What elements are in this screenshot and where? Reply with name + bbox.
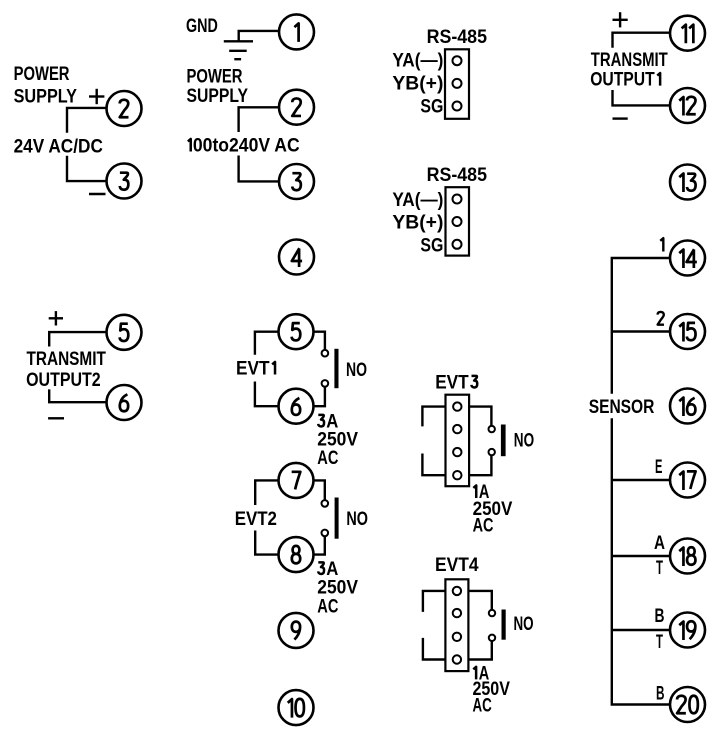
wire terminal5-left to transmit output2 [49,332,106,346]
terminal 6 [279,389,314,424]
ground symbol [224,40,253,42]
wire EVT2 contact to terminal8 [314,536,325,554]
terminal 11 [670,16,705,51]
contact point EVT3 lower [489,449,495,455]
svg-text:T: T [656,631,663,653]
wire sensor bus lower [612,418,670,704]
terminal 2 (24V supply) [107,91,142,126]
svg-text:POWER: POWER [187,65,243,87]
terminal 1 [279,14,314,49]
terminal 13 [670,165,705,200]
svg-text:SG: SG [420,235,443,257]
svg-text:POWER: POWER [14,63,70,85]
svg-text:00to240V AC: 00to240V AC [193,135,300,157]
svg-text:E: E [655,456,662,478]
wire terminal7 to EVT2 contact [314,480,325,500]
svg-text:SUPPLY: SUPPLY [187,85,249,107]
svg-text:OUTPUT2: OUTPUT2 [26,369,101,391]
svg-text:EVT: EVT [435,371,469,393]
contact blade EVT1 (NO) [334,349,338,388]
wire bus to terminal19 [612,629,670,631]
wire transmit output2 to terminal6-left [49,389,106,402]
minus sign (transmit output1) [613,117,628,119]
pin SG lower [453,240,462,249]
wire EVT2 left bracket lower [255,531,278,555]
terminal 12 [670,88,705,123]
terminal 9 [279,613,314,648]
pin 2 EVT3 [453,425,461,433]
wire EVT4 contact to pin4 [468,641,491,660]
terminal 2 [279,90,314,125]
rating 3A (EVT2) [318,562,324,574]
pin 3 EVT4 [453,633,461,641]
svg-text:T: T [656,557,663,579]
svg-text:AC: AC [473,694,492,716]
wire terminal11 to transmit output1 [613,33,670,48]
contact point EVT2 upper [322,500,329,507]
terminal 4 [279,240,314,275]
wire EVT1 left bracket lower [255,382,279,407]
connector EVT4 body [445,579,468,671]
wire bus to terminal18 [612,555,670,557]
terminal 14 [670,241,705,276]
wire sensor bus upper [612,258,670,394]
wire EVT4 left bracket upper [423,591,446,612]
svg-text:TRANSMIT: TRANSMIT [27,348,106,370]
svg-text:EVT4: EVT4 [435,554,479,576]
contact blade EVT3 (NO) [501,425,506,457]
pin YB lower [453,217,462,226]
contact point EVT4 lower [489,635,495,641]
terminal 18 [670,539,705,574]
connector RS-485 lower body [446,187,470,255]
rating 3A (EVT1) [318,415,324,427]
svg-text:NO: NO [514,430,534,452]
svg-text:SG: SG [420,96,443,118]
terminal 6 (transmit output2) [107,385,142,420]
wire EVT3 pin1 to contact [469,407,491,426]
wire EVT2 left bracket upper [255,480,278,505]
svg-text:NO: NO [346,359,367,381]
pin YA upper [453,56,462,65]
svg-text:AC: AC [317,595,338,617]
plus sign (transmit output2) [49,317,63,319]
pin YB upper [453,79,462,88]
terminal 5 [279,314,314,349]
wire EVT1 contact to terminal6 [313,387,325,407]
sensor lead label 2 [658,312,664,325]
pin SG upper [453,102,462,111]
wire EVT3 left bracket upper [422,407,445,427]
svg-text:OUTPUT: OUTPUT [590,69,655,91]
terminal 19 [670,613,705,648]
minus sign (24V supply) [89,193,106,195]
svg-text:SUPPLY: SUPPLY [14,86,77,108]
terminal 7 [279,463,314,498]
contact point EVT4 upper [489,610,495,616]
contact blade EVT4 (NO) [502,610,506,640]
wire bus to terminal15 [612,330,670,332]
contact blade EVT2 (NO) [335,498,339,539]
wire EVT3 left bracket lower [422,454,445,476]
terminal 3 [279,164,314,199]
wire EVT4 pin1 to contact [468,591,491,610]
plus sign (transmit output1) [613,19,628,21]
terminal 3 (24V supply) [107,164,142,199]
wire EVT1 left bracket upper [255,332,279,355]
terminal 20 [670,687,705,722]
svg-text:YB(+): YB(+) [392,72,443,94]
terminal 15 [670,314,705,349]
svg-text:A: A [654,532,665,554]
contact point EVT1 upper [322,350,329,357]
svg-text:YB(+): YB(+) [392,212,443,234]
connector EVT3 body [446,395,470,487]
wire terminal1 to ground [239,31,279,41]
contact point EVT3 upper [489,426,495,432]
wire 100-240V supply to terminal3 [239,156,280,182]
svg-text:24V AC/DC: 24V AC/DC [14,135,103,157]
pin YA lower [453,195,462,204]
connector RS-485 upper body [445,49,469,119]
minus sign (transmit output2) [48,417,64,419]
terminal 17 [670,463,705,498]
wire EVT3 contact to pin4 [469,455,491,475]
pin 1 EVT4 [453,587,461,595]
wire terminal2 to 100-240V supply [239,107,280,132]
pin 3 EVT3 [453,448,461,456]
svg-text:NO: NO [514,613,534,635]
svg-text:EVT2: EVT2 [235,508,277,530]
terminal 10 [279,690,314,725]
pin 4 EVT4 [453,655,461,663]
contact point EVT1 lower [322,380,329,387]
svg-text:GND: GND [186,15,218,37]
svg-text:NO: NO [346,508,368,530]
wire EVT4 left bracket lower [423,638,446,660]
svg-text:YA(—): YA(—) [392,50,443,72]
svg-text:SENSOR: SENSOR [589,396,655,418]
value label 100to240V AC [188,139,191,152]
terminal 16 [670,389,705,424]
svg-text:AC: AC [473,515,494,537]
rating 1A (EVT3) [473,485,476,498]
pin 1 EVT3 [453,402,461,410]
plus sign (24V supply) [89,95,104,97]
svg-text:YA(—): YA(—) [392,189,443,211]
svg-text:B: B [655,605,665,627]
pin 4 EVT3 [453,471,461,479]
sensor lead label 1 [660,238,663,251]
svg-text:AC: AC [317,447,338,469]
terminal 5 (transmit output2) [107,315,142,350]
svg-text:RS-485: RS-485 [427,164,487,186]
svg-text:B: B [656,682,665,704]
wire terminal5 to EVT1 contact [313,332,325,350]
wire bus to terminal17 [612,479,670,481]
pin 2 EVT4 [453,609,461,617]
contact point EVT2 lower [322,530,329,537]
rating 1A (EVT4) [473,667,476,680]
wire terminal2-left to 24V supply [67,108,107,133]
terminal 8 [279,537,314,572]
svg-text:RS-485: RS-485 [427,26,487,48]
wire transmit output1 to terminal12 [613,90,670,105]
svg-text:EVT: EVT [236,358,270,380]
wire 24V supply to terminal3-left [67,156,107,181]
